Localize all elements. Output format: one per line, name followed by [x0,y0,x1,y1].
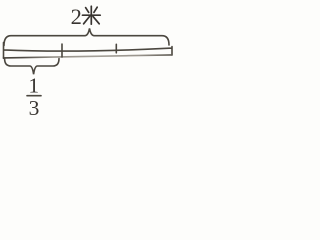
label 2米 : hanzi 米 drawn as strokes [83,6,101,24]
overbrace 2米 (whole bar) [4,28,169,45]
fraction bar of 1/3 [27,95,41,97]
tick 2/3 [115,44,117,53]
underbrace first third [5,59,59,75]
svg-text:3: 3 [29,96,40,120]
bar rectangle: left edge, top edge, right edge [4,43,173,59]
tick 1/3 [61,44,63,57]
svg-text:1: 1 [28,73,39,97]
svg-text:2: 2 [71,4,82,29]
bar rectangle: bottom edge (fades mid-span) [4,55,173,58]
